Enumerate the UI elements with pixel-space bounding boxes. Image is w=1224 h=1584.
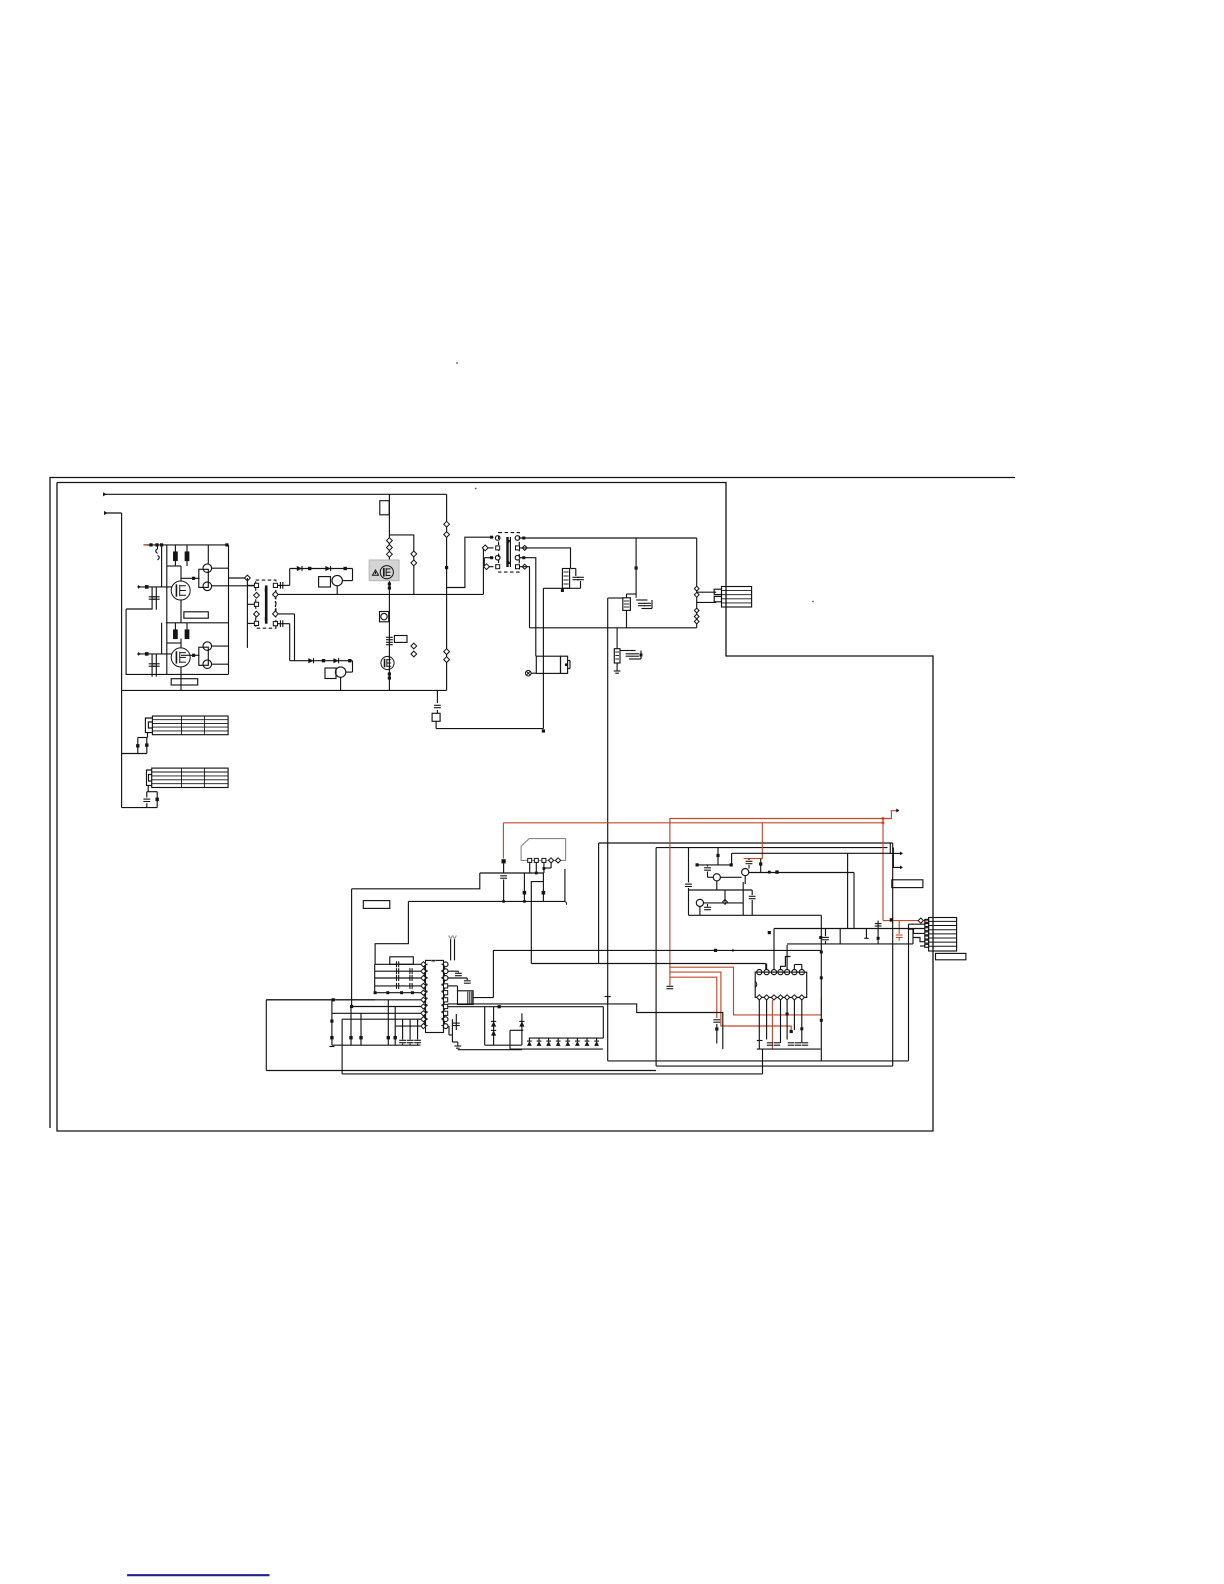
pin T1-6 (273, 583, 277, 587)
node T2r1 (522, 537, 525, 540)
CN2 pin box7 (925, 944, 929, 947)
pin IC2-R4 (444, 984, 448, 988)
wire r30 tail (716, 1024, 718, 1044)
highlight pad Q7 (369, 560, 399, 581)
transistor Q1 (171, 581, 190, 600)
capacitor Cx410.1 (407, 1040, 414, 1042)
wire FL2 tie (147, 791, 157, 793)
node row4 diamond (484, 564, 490, 570)
transformer T2 core a (506, 537, 508, 567)
FL1 pin mid (148, 722, 152, 728)
junction a2 (155, 543, 158, 546)
FL2 pins (147, 770, 152, 785)
transistor Q5 (332, 575, 342, 585)
wire gate input 2 (137, 653, 171, 655)
opto PC1 hatch (468, 992, 472, 1004)
capacitor bank a y985.9 (397, 983, 399, 989)
wire Q1 source (180, 600, 182, 623)
CN2 pin box5 (925, 936, 929, 939)
diode DR2 (537, 1041, 542, 1046)
capacitor C9b (411, 560, 417, 566)
wire lb4 feed (732, 852, 891, 854)
pin IC2-L10 (421, 1024, 426, 1029)
pin IC2-R6 (444, 998, 448, 1002)
node row7 j (350, 1005, 353, 1008)
resistor R33 (542, 891, 546, 895)
transistor Q11 (742, 869, 749, 876)
transformer T2 box (499, 533, 520, 573)
diode DR4 (556, 1041, 561, 1046)
node U2 in j (192, 654, 195, 657)
wire p3r (448, 977, 467, 979)
wire reg in (503, 863, 505, 873)
pin IC2-L5 (421, 990, 426, 995)
capacitor C7 (386, 637, 393, 639)
wire ic3 b7 (801, 1000, 803, 1043)
wire gnd v (451, 1035, 453, 1042)
capacitor CR805 (802, 1043, 808, 1045)
CN1 bar2 (722, 594, 752, 596)
resistor R11 (348, 659, 351, 662)
wire pin3 drop (543, 863, 545, 874)
wire U2 in (181, 654, 200, 656)
resistor R5 (185, 630, 189, 639)
node sv7 (388, 672, 391, 675)
wire T1 out3 down (294, 614, 296, 661)
transistor Q7 (380, 566, 393, 579)
wire c41 v (877, 921, 879, 944)
capacitor bank b y985.9 (410, 983, 412, 989)
wire pin2 drop B (765, 964, 767, 970)
CN2 bar6 (929, 941, 957, 943)
wire c16 tie bot (642, 608, 653, 610)
component Y1 hooks (156, 545, 160, 560)
zener ZD2 (491, 1030, 496, 1035)
node feed j1 (768, 931, 771, 934)
pin T2-3 (495, 555, 500, 560)
wire ic3 t5 h (787, 943, 913, 945)
wire ic3 t67 h (794, 964, 801, 966)
pin T1-9 (273, 622, 277, 626)
connector CN2 body (929, 918, 957, 952)
wire c39 v (707, 904, 709, 907)
CN1 key b (714, 596, 721, 601)
box right left1 (598, 843, 600, 964)
diode DR3 (546, 1041, 551, 1046)
transistor Q3b (203, 582, 212, 591)
pin IC2-L6 (421, 997, 426, 1002)
wire lower drive rail (166, 622, 229, 624)
capacitor C17 (644, 603, 651, 605)
node sv3 (387, 551, 393, 557)
wire capdrop x410.1 (409, 1019, 411, 1039)
wire gate feed Q1 (180, 566, 182, 581)
wire drop g3 (186, 545, 188, 552)
wire AC line rail (103, 493, 447, 495)
CN1 bar1 (722, 590, 752, 592)
wire cap X1a (137, 738, 139, 754)
wire diode row v (509, 1030, 511, 1049)
node fb j1 (714, 949, 717, 952)
wire blb2 right (762, 1049, 764, 1074)
wire stub 607 T (605, 996, 611, 998)
CN2 bar2 (929, 925, 957, 927)
node orange j1 (882, 817, 885, 820)
pin IC3-B1 (757, 995, 762, 1000)
bus row9 (342, 1018, 421, 1020)
FL2 row4 (152, 783, 228, 785)
wire c18 bot (629, 658, 641, 660)
node col j (330, 1020, 333, 1023)
wire orange S3 (670, 977, 717, 1018)
wire ea bv (820, 915, 822, 1061)
capacitor C21a (694, 608, 699, 613)
CN2 bar1 (929, 920, 957, 922)
wire gate node upper (167, 565, 181, 567)
U7 tab (561, 656, 568, 673)
capacitor C6 (280, 620, 282, 627)
wire c16 tie top (636, 599, 647, 601)
wire Q6 out (346, 671, 353, 673)
node ic3 j1 (786, 1013, 789, 1016)
wire cap drop 2b (155, 654, 157, 677)
wire ea bottom (689, 914, 822, 916)
node gate2 arrow (138, 652, 141, 656)
transformer T2 mark b (507, 561, 511, 564)
wire reg out bus (408, 900, 565, 902)
DB1 h3 (563, 579, 568, 581)
IC2 winding right (441, 964, 444, 1025)
wire p8 drop (451, 1019, 453, 1035)
wire FL1 drop (147, 733, 149, 738)
wire Q3a out (212, 567, 229, 569)
border outer frame (50, 478, 1015, 1129)
IC3 notch (755, 981, 757, 987)
CN2 bar7 (929, 945, 957, 947)
bus row4 (375, 985, 421, 987)
wire cap c37b (707, 872, 709, 878)
connector CN1 body (722, 587, 752, 608)
wire r44 v (760, 859, 762, 873)
wire gnd bus2 (458, 1049, 522, 1051)
bus row5 (375, 992, 421, 994)
FL2 div1 (181, 768, 183, 787)
transistor Q2 (171, 648, 190, 667)
U5 h1 (624, 600, 630, 602)
resistor R44 (759, 862, 762, 865)
resistor R4 (174, 630, 178, 639)
wire U5 bottom (626, 610, 628, 627)
diode D1 (297, 566, 302, 571)
wire U6 gnd (616, 663, 618, 667)
wire T1 mid rail (278, 593, 484, 595)
wire q10 l (708, 876, 714, 878)
rectifier module DB1 (562, 569, 569, 589)
wire row4 stub (484, 566, 493, 568)
wire sense link h (436, 728, 543, 730)
warning mark Q7 (373, 570, 379, 575)
wire dr7 stub (586, 1038, 588, 1041)
wire sense link v (435, 721, 437, 728)
FL2 row1 (152, 771, 228, 773)
transistor Q4b (203, 660, 212, 669)
wire capdrop2 x417.6 (417, 1044, 419, 1046)
wire enclosure top (126, 608, 152, 610)
wire ic3 t5 (786, 945, 788, 970)
node ic3 j2 (800, 1027, 803, 1030)
border inner frame (57, 483, 933, 1132)
resistor R7 (308, 567, 311, 570)
wire bus hook (564, 869, 566, 901)
wire diode row h (510, 1029, 523, 1031)
node sv5 (388, 582, 391, 585)
capacitor ticks C13 (444, 657, 450, 663)
capacitor C19 (632, 654, 639, 656)
wire cn1 feed1 (697, 591, 717, 593)
wire ea left v (688, 848, 690, 883)
diode DR5 (565, 1041, 570, 1046)
wire gnd h (449, 1034, 452, 1036)
capacitor C16 (638, 603, 645, 605)
bus row3 (375, 977, 421, 979)
wire gnd v2 (452, 1041, 457, 1043)
wire q12 v (724, 890, 726, 903)
capacitor CR770 (767, 1043, 773, 1045)
wire cn2 stair1 (909, 929, 925, 933)
diode DR8 (594, 1041, 599, 1046)
resistor R34 (330, 1036, 333, 1039)
wire ic3 b1 (758, 1000, 760, 1049)
U7 bump v (569, 661, 571, 669)
wire Q3b out (212, 585, 255, 587)
wire cap Y1c (146, 803, 148, 807)
wire p5r drop (457, 986, 459, 991)
wire cap X1b (146, 738, 148, 754)
capacitor C39 (704, 907, 711, 909)
wire r1 join (174, 561, 176, 567)
wire cap drop 2a (151, 654, 153, 677)
wire p5r (448, 985, 458, 987)
wire ea mid v (742, 882, 744, 915)
filter FL2 body (152, 768, 228, 787)
pin IC3-T2 (764, 970, 769, 975)
node sv2 (387, 545, 393, 551)
node bus j2 (523, 900, 526, 903)
U7 bump1 (568, 660, 570, 662)
wire ic3 t4 (781, 957, 791, 970)
wire AC neutral stub (104, 512, 122, 514)
wire sense drop2 (436, 710, 438, 713)
wire c17 up (651, 600, 653, 609)
pin IC2-L9 (421, 1017, 426, 1022)
capacitor CX1 (136, 744, 139, 747)
pin T2-8 (516, 565, 520, 569)
wire row34 tie (483, 558, 485, 567)
wire ea drop2 (731, 853, 733, 865)
wire row6-row8 link (331, 1000, 333, 1014)
wire c38 b (751, 900, 753, 915)
wire drop840 (839, 929, 841, 944)
wire c33 v (457, 971, 459, 972)
node sv1 (387, 538, 393, 544)
wire aux2 step (448, 1004, 723, 1049)
wire cap drop 1b (155, 587, 157, 610)
FL1 pins (145, 718, 152, 733)
IC2 winding left (424, 964, 427, 1025)
wire conn top (909, 923, 926, 925)
node row2 diamond (482, 545, 488, 551)
capacitor bank b y971.2 (410, 968, 412, 974)
wire down link (531, 882, 543, 964)
wire cr tie (757, 1040, 763, 1042)
pin IC2-L7 (421, 1004, 426, 1009)
wire q11 out (749, 872, 854, 874)
capacitor C14 (572, 577, 579, 579)
wire ic3 t7 (801, 965, 803, 970)
resistor R13 (490, 556, 493, 559)
diode D3 (308, 658, 313, 663)
driver U4 body (325, 668, 336, 679)
regulator U6 body (614, 649, 620, 663)
wire blb2 left (341, 1019, 343, 1074)
wire sec row3 (520, 558, 536, 657)
wire Q4a out (212, 645, 229, 647)
capacitor Cx417.6 (414, 1040, 421, 1042)
box right top1 (599, 842, 893, 844)
wire left col (331, 1013, 333, 1045)
wire group right bus (228, 545, 230, 675)
wire ea drop1 (717, 848, 719, 865)
pin IC2-L2 (421, 969, 426, 974)
wire E1 link (531, 672, 536, 674)
wire r2 join (186, 561, 188, 567)
node orange arrow (896, 809, 899, 813)
capacitor C20b (694, 592, 699, 597)
pin T1-3 (254, 602, 258, 606)
pin IC2-L1 (421, 962, 426, 967)
wire cap c37 (707, 865, 709, 867)
node neutral-in arrow (104, 511, 107, 515)
FL2 pin mid (149, 775, 152, 782)
pin IC2-L4 (421, 983, 426, 988)
wire q10 r (720, 876, 741, 878)
wire ea left v2 (688, 888, 690, 915)
wire p2r (448, 970, 459, 972)
transformer T1 core (265, 585, 268, 623)
wire inner long vertical (655, 848, 657, 1067)
CN2 bar5 (929, 937, 957, 939)
wire hv row upper (290, 568, 353, 570)
wire T1 out1 (278, 584, 290, 586)
wire dr4 stub (557, 1038, 559, 1041)
U6 h1 (615, 651, 619, 653)
wire p7 drop (448, 1026, 450, 1035)
wire pin4 h (545, 867, 551, 869)
wire orange S1 (670, 967, 822, 1015)
wire pin2 drop (535, 863, 537, 874)
wire orange reg (744, 823, 763, 859)
wire drop h3 (186, 623, 188, 630)
capacitor C30 (667, 986, 674, 988)
label box LB1 (184, 612, 208, 618)
wire drop x351 (350, 1007, 352, 1046)
capacitor CY2 (156, 798, 159, 801)
pin IC2-R10 (443, 1024, 448, 1029)
bus row1 (375, 963, 421, 965)
diode DR1 (527, 1041, 532, 1046)
wire ic3 t2 (766, 964, 768, 970)
resistor R9 (322, 659, 325, 662)
capacitor ticks C10 (444, 521, 450, 527)
wire ea top1 (697, 864, 731, 866)
wire T1 pin3 stub (247, 603, 254, 605)
wire sec row4 (520, 567, 530, 628)
wire col T (329, 1046, 334, 1048)
wire primary bottom rail (122, 689, 447, 691)
driver pair U2 body (199, 647, 209, 665)
node ea2 (820, 976, 823, 979)
wire capdrop2 x410.1 (409, 1044, 411, 1046)
node arrow1 (900, 852, 903, 856)
wire ic3 gbus (757, 1048, 821, 1050)
bus row7 (352, 1006, 422, 1008)
wire t5 up (912, 930, 914, 944)
wire gate node lower (167, 642, 181, 644)
wire feedback vertical (607, 598, 609, 1061)
pin IC1-1 (528, 858, 532, 862)
wire ic3 b2 (766, 1000, 768, 1040)
wire T1 pin5 stub (247, 622, 254, 624)
U6 h3 (615, 658, 619, 660)
node ea3 (820, 1019, 823, 1022)
node sv8 (388, 676, 391, 679)
pin IC2-R3 (443, 976, 448, 981)
node row5 j1 (374, 991, 377, 994)
resistor R14 (635, 566, 638, 569)
wire gate input 1 (137, 586, 171, 588)
transistor Q4a (203, 642, 212, 651)
node ea0 (819, 936, 822, 939)
transformer T1 mark b (265, 617, 268, 621)
wire FL1 tie (138, 737, 148, 739)
resistor Rx361 (359, 1036, 362, 1039)
wire q10 e (716, 881, 718, 890)
box right bottom1 (608, 1060, 909, 1062)
pin IC2-L3 (421, 975, 426, 980)
CN2 pin box2 (925, 924, 929, 927)
wire lower enclosure (126, 609, 228, 674)
node sense end (542, 729, 545, 732)
wire DB1 to sense v (542, 588, 544, 728)
wire switch vertical (388, 494, 390, 690)
wire red rail tick (144, 544, 148, 546)
pin IC1-5 (556, 858, 561, 863)
pin IC2-L8 (421, 1011, 426, 1016)
label box LB4 (892, 880, 923, 888)
wire T1 out4 down (289, 624, 291, 661)
wire U1 in (181, 577, 200, 579)
box left bottom (266, 1070, 656, 1072)
label box LB5 (363, 901, 390, 909)
pin T1-4 (254, 611, 260, 617)
wire diode row top (529, 1037, 603, 1039)
wire pin4 drop (550, 863, 552, 868)
wire branch snubber (389, 535, 413, 595)
pin T2-7 (515, 555, 520, 560)
capacitor C4 (153, 664, 160, 666)
wire drop h2 (174, 623, 176, 630)
bus hook curl (564, 901, 566, 904)
